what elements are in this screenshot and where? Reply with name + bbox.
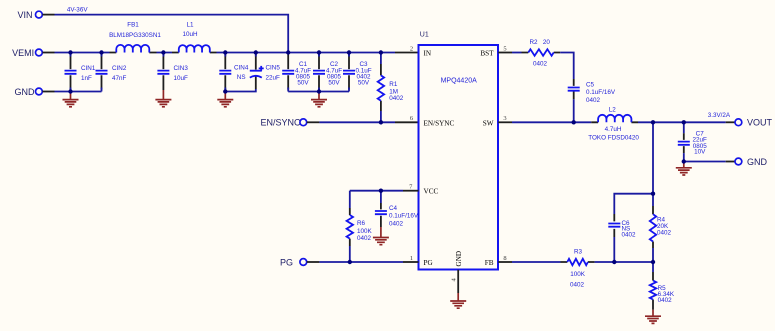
capacitor CIN2 [96, 53, 127, 92]
svg-text:IN: IN [424, 50, 432, 58]
pin 7 stub [403, 190, 419, 192]
port VIN [17, 10, 54, 20]
wire FB to R3 [512, 261, 561, 263]
svg-text:EN/SYNC: EN/SYNC [260, 118, 301, 128]
svg-text:4.7uH: 4.7uH [605, 126, 622, 133]
svg-text:0402: 0402 [357, 235, 372, 242]
pin 4 stub [457, 270, 459, 293]
port GND (output) [726, 157, 768, 167]
capacitor CIN1 [65, 53, 96, 92]
pin 2 stub [395, 52, 419, 54]
IC U1 MPQ4420A [409, 31, 506, 281]
port PG [280, 257, 319, 267]
pin 1 stub [403, 261, 419, 263]
svg-text:10V: 10V [694, 149, 706, 156]
svg-text:4V-36V: 4V-36V [67, 7, 88, 14]
ground at CIN3 [155, 90, 171, 107]
port VEMI [12, 48, 54, 58]
resistor R6 [347, 191, 373, 262]
wire C6 branch top [614, 194, 653, 214]
svg-text:VIN: VIN [17, 10, 32, 20]
svg-text:L2: L2 [609, 107, 617, 114]
resistor R5 [650, 262, 675, 310]
svg-text:BST: BST [480, 50, 494, 58]
wire R2 to C5 [560, 53, 574, 80]
ground at C7 [676, 162, 692, 176]
svg-text:2: 2 [410, 46, 413, 53]
svg-text:CIN4: CIN4 [234, 65, 249, 72]
ground at pin 4 [450, 293, 466, 308]
inductor L2 [588, 107, 639, 142]
svg-text:CIN2: CIN2 [112, 65, 127, 72]
svg-text:0402: 0402 [586, 97, 601, 104]
svg-text:0402: 0402 [622, 231, 637, 238]
svg-text:10uH: 10uH [182, 31, 198, 38]
svg-text:TOKO FDSD0420: TOKO FDSD0420 [588, 135, 639, 142]
wire SW rail [512, 121, 591, 123]
svg-text:CIN5: CIN5 [266, 65, 281, 72]
svg-text:100K: 100K [570, 271, 586, 278]
svg-text:GND: GND [15, 87, 36, 97]
inductor L1 [172, 22, 217, 53]
svg-text:NS: NS [237, 74, 246, 81]
ground at CIN4 [217, 92, 233, 107]
svg-text:R1: R1 [389, 81, 398, 88]
wire VEMI rail [55, 52, 396, 54]
svg-text:0402: 0402 [389, 220, 404, 227]
capacitor C1 [282, 55, 311, 92]
wire VCC rail [350, 190, 403, 192]
capacitor C3 [343, 53, 372, 92]
capacitor C7 [678, 122, 707, 161]
wire C1-C3 bottom [288, 91, 349, 93]
wire GND to CIN1/CIN2 [55, 91, 102, 93]
svg-text:GND: GND [747, 157, 768, 167]
svg-text:50V: 50V [328, 80, 340, 87]
svg-text:0402: 0402 [389, 95, 404, 102]
svg-text:FB: FB [485, 259, 494, 267]
svg-text:3.3V/2A: 3.3V/2A [708, 112, 731, 119]
svg-text:CIN1: CIN1 [81, 65, 96, 72]
wire VOUT node down to divider [652, 122, 654, 193]
svg-text:R2: R2 [529, 39, 538, 46]
wire CIN4-CIN5 bottom [225, 89, 256, 92]
svg-text:100K: 100K [357, 228, 373, 235]
ground at C4 [373, 227, 389, 245]
svg-text:8: 8 [503, 255, 506, 262]
wire R3 to divider [595, 261, 653, 263]
svg-text:CIN3: CIN3 [174, 65, 189, 72]
svg-text:PG: PG [280, 257, 293, 267]
capacitor CIN4 [219, 53, 249, 92]
resistor R1 [378, 53, 404, 123]
svg-text:0402: 0402 [533, 61, 548, 68]
svg-text:C5: C5 [586, 81, 595, 88]
svg-text:C4: C4 [389, 205, 398, 212]
svg-text:R3: R3 [574, 249, 583, 256]
wire EN/SYNC to pin 6 [319, 121, 395, 123]
svg-text:U1: U1 [420, 31, 429, 38]
svg-text:PG: PG [424, 259, 433, 267]
ferrite bead FB1 [109, 22, 161, 53]
svg-text:10uF: 10uF [174, 75, 189, 82]
svg-text:0402: 0402 [658, 297, 673, 304]
pin 3 stub [498, 121, 512, 123]
svg-text:MPQ4420A: MPQ4420A [441, 78, 478, 85]
svg-text:1nF: 1nF [81, 75, 92, 82]
port VOUT [726, 118, 773, 128]
svg-text:SW: SW [483, 119, 494, 127]
wire VIN to C1 node [55, 15, 289, 53]
svg-text:0402: 0402 [570, 281, 585, 288]
resistor R2 [522, 39, 561, 68]
ground at CIN1 [63, 92, 79, 107]
pin 8 stub [498, 261, 512, 263]
capacitor CIN3 [157, 53, 188, 91]
capacitor C4 [375, 191, 419, 228]
svg-text:GND: GND [455, 251, 463, 267]
resistor R4 [650, 194, 672, 262]
capacitor CIN5 (polarized) [250, 53, 281, 90]
svg-text:50V: 50V [358, 80, 370, 87]
wire C7 to GND port [684, 161, 726, 163]
svg-text:0.1uF/16V: 0.1uF/16V [586, 89, 616, 96]
svg-text:VOUT: VOUT [747, 118, 773, 128]
capacitor C2 [313, 53, 342, 92]
svg-text:3: 3 [503, 115, 506, 122]
wire BST to R2 [512, 52, 522, 54]
pin 6 stub [395, 121, 419, 123]
svg-text:L1: L1 [186, 22, 194, 29]
svg-text:0402: 0402 [657, 229, 672, 236]
svg-text:5: 5 [503, 46, 506, 53]
pin 5 stub [498, 52, 512, 54]
ground at R5 [645, 310, 661, 324]
svg-text:1: 1 [410, 255, 413, 262]
svg-text:20: 20 [543, 39, 551, 46]
svg-text:FB1: FB1 [127, 22, 139, 29]
svg-text:R6: R6 [357, 220, 366, 227]
svg-text:0.1uF/16V: 0.1uF/16V [389, 213, 419, 220]
svg-text:VEMI: VEMI [12, 48, 34, 58]
capacitor C6 [608, 214, 636, 262]
svg-text:EN/SYNC: EN/SYNC [424, 119, 455, 127]
port GND (input) [15, 87, 55, 97]
resistor R3 [561, 249, 595, 289]
svg-text:50V: 50V [297, 80, 309, 87]
svg-text:VCC: VCC [424, 188, 439, 196]
wire PG to pin 1 [319, 261, 403, 263]
port EN/SYNC [260, 118, 319, 128]
wire L2 to VOUT [638, 121, 726, 123]
svg-text:22uF: 22uF [266, 75, 281, 82]
svg-text:BLM18PG330SN1: BLM18PG330SN1 [109, 32, 161, 39]
svg-text:47nF: 47nF [112, 75, 127, 82]
ground at C2 [311, 92, 327, 107]
capacitor C5 [568, 79, 616, 122]
